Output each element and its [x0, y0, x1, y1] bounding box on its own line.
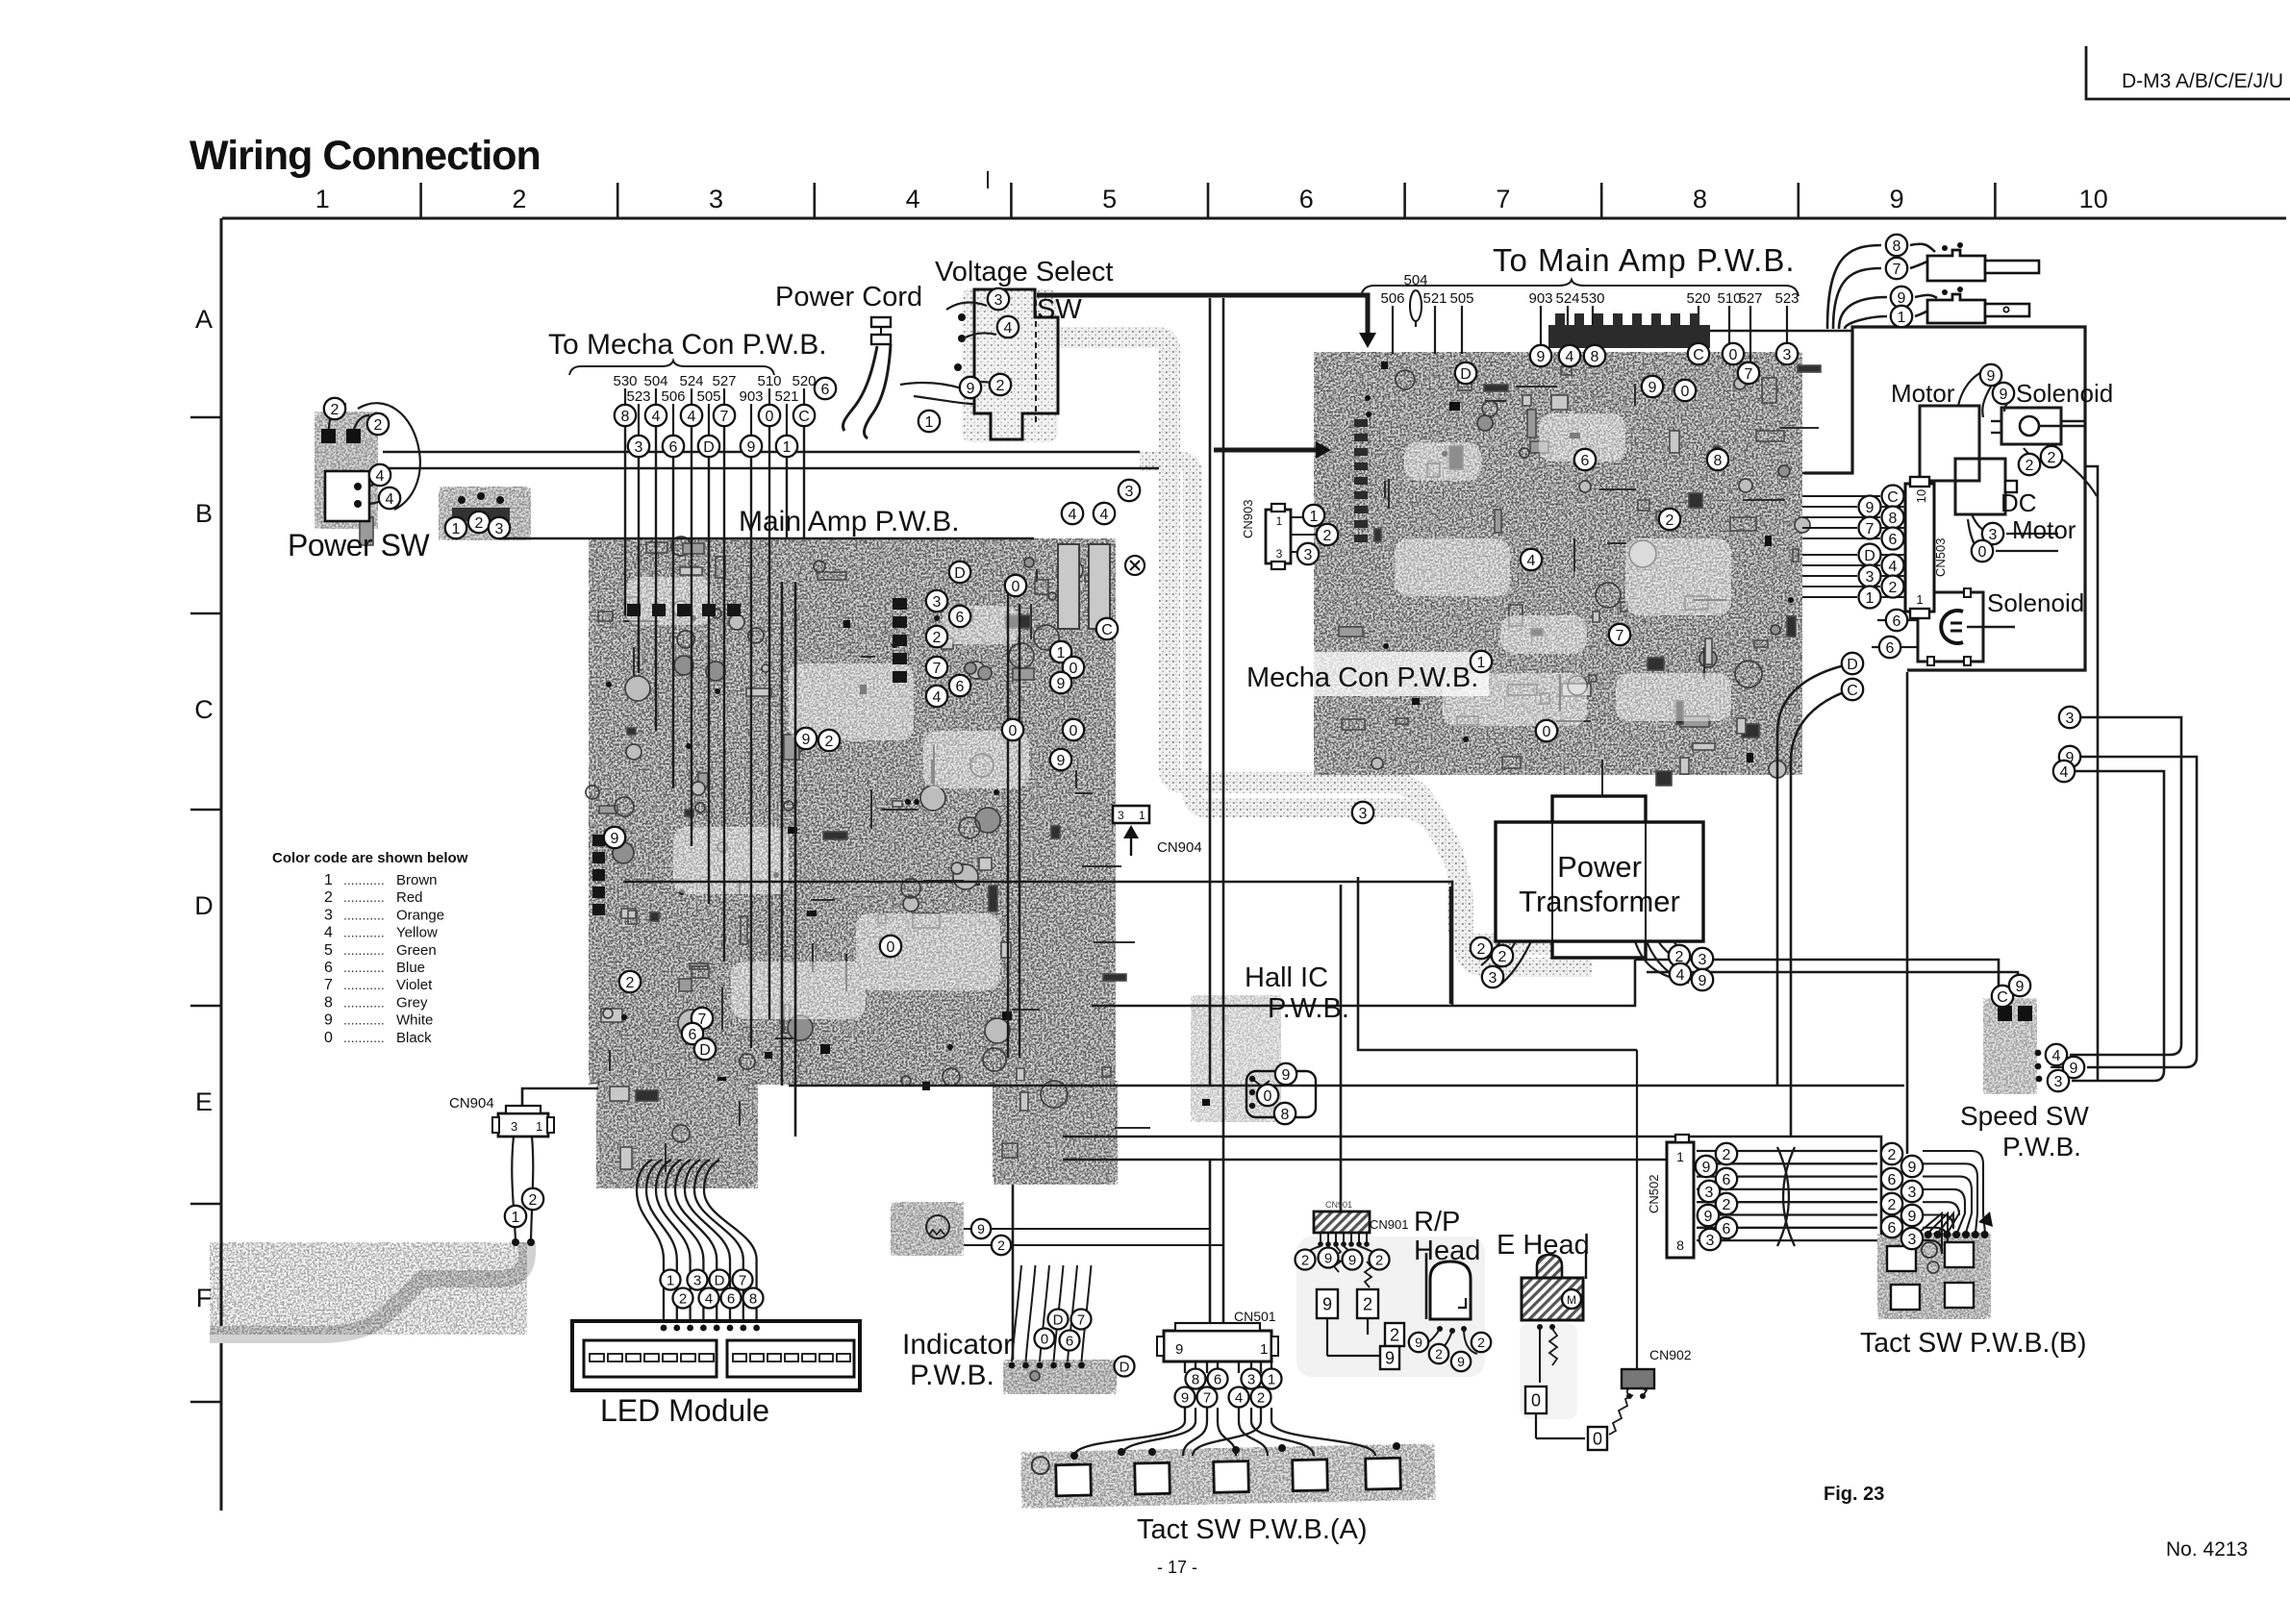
LED module pin dots	[661, 1325, 760, 1332]
svg-text:P.W.B.: P.W.B.	[2002, 1132, 2081, 1162]
svg-text:4: 4	[688, 409, 696, 425]
svg-text:1: 1	[452, 521, 461, 537]
circled markers Indicator	[1035, 1310, 1135, 1377]
svg-text:To Mecha Con P.W.B.: To Mecha Con P.W.B.	[548, 329, 827, 361]
svg-text:1: 1	[324, 872, 333, 888]
svg-text:6: 6	[1214, 1371, 1221, 1387]
svg-text:3: 3	[709, 185, 723, 213]
svg-text:CN503: CN503	[1933, 538, 1948, 577]
svg-text:3: 3	[1783, 347, 1792, 363]
svg-text:8: 8	[749, 1290, 757, 1307]
svg-text:1: 1	[1139, 809, 1145, 822]
arrowhead CN904 right	[1123, 825, 1139, 838]
svg-text:4: 4	[2052, 1048, 2061, 1064]
svg-text:Power Cord: Power Cord	[775, 282, 922, 312]
svg-text:2: 2	[324, 889, 333, 906]
board white patches	[625, 413, 1731, 1019]
svg-text:7: 7	[1077, 1312, 1085, 1328]
svg-text:6: 6	[324, 960, 333, 976]
squiggle to CN902	[1609, 1395, 1633, 1435]
svg-text:Black: Black	[396, 1030, 432, 1046]
svg-text:A: A	[195, 305, 213, 334]
wire group CN501 to Tact A	[1074, 1408, 1375, 1456]
svg-text:Wiring Connection: Wiring Connection	[189, 133, 541, 179]
svg-text:Head: Head	[1414, 1236, 1480, 1266]
svg-text:2: 2	[1888, 1197, 1897, 1213]
Indicator feed wires	[1012, 1265, 1092, 1362]
svg-text:9: 9	[1702, 1160, 1711, 1176]
svg-text:4: 4	[1889, 559, 1898, 575]
svg-text:C: C	[1997, 989, 2008, 1006]
wire right box bundle down 9	[2081, 757, 2197, 1067]
small trim board circles	[926, 1215, 949, 1238]
svg-text:No. 4213: No. 4213	[2166, 1538, 2248, 1561]
label Mecha Con P.W.B.	[1239, 652, 1489, 696]
svg-text:2: 2	[1363, 1294, 1372, 1313]
svg-text:2: 2	[1323, 528, 1332, 544]
svg-text:2: 2	[475, 515, 484, 532]
trim board wires right	[964, 1228, 1210, 1230]
svg-text:1: 1	[512, 1210, 520, 1226]
svg-text:Motor: Motor	[1891, 379, 1955, 408]
wire labels To Mecha Con group	[613, 373, 816, 405]
wire speed SW feed upper	[1635, 960, 1999, 1002]
circled markers LED module	[661, 1270, 764, 1309]
grid row letters	[194, 305, 214, 1312]
svg-text:8: 8	[1714, 453, 1723, 469]
svg-text:7: 7	[1745, 366, 1753, 383]
svg-text:9: 9	[1324, 1250, 1332, 1266]
wire nested L left of transformer inner	[1449, 887, 1452, 1004]
Mecha Con left comb	[1354, 419, 1368, 542]
Tact SW B switches	[1887, 1242, 1974, 1310]
svg-text:D: D	[1053, 1312, 1064, 1328]
svg-text:6: 6	[1886, 640, 1895, 657]
svg-text:...........: ...........	[343, 925, 385, 940]
small trim board below Main Amp	[891, 1202, 964, 1256]
svg-text:521: 521	[774, 388, 798, 405]
svg-text:Power SW: Power SW	[288, 528, 430, 562]
circled markers flex cable	[505, 1188, 543, 1227]
svg-text:Motor: Motor	[2012, 515, 2076, 544]
E head boxed 0	[1525, 1387, 1547, 1413]
svg-text:0: 0	[887, 939, 895, 956]
svg-text:8: 8	[1676, 1237, 1684, 1253]
svg-text:2: 2	[331, 402, 340, 418]
svg-text:9: 9	[1898, 290, 1906, 307]
wire group CN502 to Tact B drops	[1919, 1151, 1985, 1254]
svg-text:E Head: E Head	[1497, 1230, 1590, 1261]
svg-text:530: 530	[613, 373, 637, 389]
connector CN904 left	[492, 1106, 554, 1137]
svg-text:SW: SW	[1037, 294, 1082, 325]
connector CN901	[1314, 1212, 1370, 1233]
svg-text:1: 1	[1477, 655, 1486, 671]
svg-text:3: 3	[1699, 952, 1707, 968]
svg-text:8: 8	[1893, 238, 1901, 255]
wire plug connect 8	[1910, 244, 1935, 252]
svg-text:D: D	[1120, 1359, 1130, 1375]
E head symbol	[1522, 1250, 1586, 1320]
Main Amp left pads	[592, 835, 605, 915]
svg-text:P.W.B.: P.W.B.	[1268, 993, 1349, 1024]
Speed SW board	[1983, 998, 2037, 1094]
svg-text:D: D	[1847, 657, 1858, 673]
svg-text:...........: ...........	[343, 994, 385, 1010]
svg-text:9: 9	[1908, 1209, 1917, 1225]
R/P head bottom pins	[1416, 1326, 1477, 1354]
svg-text:506: 506	[1380, 290, 1404, 307]
svg-text:M: M	[1567, 1293, 1576, 1307]
svg-text:3: 3	[1908, 1232, 1917, 1248]
upper Solenoid symbol	[1991, 408, 2085, 444]
svg-text:9: 9	[1699, 973, 1707, 989]
svg-text:Grey: Grey	[396, 994, 428, 1011]
Tact SW B board	[1877, 1233, 1991, 1319]
R/P head boxed leads	[1317, 1289, 1338, 1318]
Hall IC board trace	[1191, 995, 1281, 1122]
svg-text:8: 8	[1591, 349, 1599, 365]
svg-text:8: 8	[621, 409, 630, 425]
circled markers on Main Amp board	[604, 562, 1118, 1060]
svg-text:1: 1	[667, 1272, 674, 1288]
svg-text:...........: ...........	[343, 907, 385, 922]
arrowhead into Tact B	[1978, 1212, 1993, 1227]
wire right box bundle down 3	[2070, 717, 2181, 1055]
svg-text:9: 9	[1537, 349, 1546, 365]
wire top feed to enclosure box	[1616, 330, 1852, 333]
svg-text:Color code are shown below: Color code are shown below	[272, 850, 468, 866]
svg-text:D: D	[699, 1042, 711, 1059]
svg-text:9: 9	[1322, 1294, 1332, 1313]
svg-text:3: 3	[1866, 569, 1875, 586]
wire long horizontal row D2	[1063, 1137, 1881, 1235]
svg-text:3: 3	[324, 907, 333, 923]
svg-text:2: 2	[2026, 458, 2034, 474]
svg-text:3: 3	[1359, 806, 1368, 822]
svg-text:Main Amp P.W.B.: Main Amp P.W.B.	[739, 506, 960, 537]
grid row ticks	[190, 417, 221, 1402]
wire D drop from box	[1777, 663, 1852, 1086]
svg-text:9: 9	[1282, 1067, 1291, 1084]
svg-text:9: 9	[611, 831, 619, 847]
svg-text:523: 523	[626, 388, 650, 405]
motor top wire	[1958, 371, 1983, 406]
svg-text:P.W.B.: P.W.B.	[910, 1360, 994, 1391]
wire arrow feed into Mecha Con left	[1214, 448, 1318, 453]
wire CN904-left pin1	[512, 1137, 516, 1240]
Indicator P.W.B. board	[1003, 1360, 1117, 1394]
Mecha Con top comb connector	[1548, 313, 1710, 348]
wire plug connect 7	[1910, 256, 1943, 268]
svg-text:2: 2	[1375, 1252, 1383, 1268]
wire group LED module feed	[637, 1190, 757, 1325]
svg-text:9: 9	[1908, 1160, 1917, 1176]
Power SW component detail	[321, 429, 369, 521]
PCB Main Amp lower-left lobe	[596, 1081, 758, 1188]
svg-text:2: 2	[512, 185, 526, 213]
svg-text:0: 0	[766, 409, 774, 425]
CN903 wires	[1291, 516, 1302, 518]
svg-text:4: 4	[324, 925, 333, 941]
svg-text:Brown: Brown	[396, 872, 438, 888]
svg-text:CN502: CN502	[1647, 1175, 1661, 1213]
svg-text:D: D	[715, 1272, 725, 1288]
arrowhead into Mecha Con top	[1359, 333, 1376, 348]
svg-text:1: 1	[1916, 592, 1923, 607]
svg-text:523: 523	[1774, 290, 1799, 307]
svg-text:7: 7	[933, 661, 942, 677]
svg-text:504: 504	[1403, 272, 1427, 288]
svg-text:3: 3	[994, 292, 1003, 309]
lower Solenoid symbol	[1918, 588, 2015, 665]
connector CN904 right	[1113, 806, 1149, 823]
svg-text:Yellow: Yellow	[396, 925, 438, 941]
svg-text:Solenoid: Solenoid	[2016, 379, 2113, 408]
svg-text:3: 3	[511, 1119, 517, 1134]
svg-text:Violet: Violet	[396, 977, 433, 993]
svg-text:1: 1	[925, 414, 934, 431]
Power SW board	[315, 412, 378, 545]
transformer right leads	[1658, 941, 1679, 960]
svg-text:...........: ...........	[343, 1030, 385, 1045]
svg-text:505: 505	[1449, 290, 1473, 307]
svg-text:3: 3	[2054, 1074, 2063, 1090]
wire group CN501 top pins	[1185, 1362, 1271, 1373]
lower solenoid wires	[1908, 619, 1918, 621]
power cord cable	[843, 346, 877, 431]
svg-text:D-M3 A/B/C/E/J/U: D-M3 A/B/C/E/J/U	[2122, 70, 2283, 92]
svg-text:Solenoid: Solenoid	[1987, 588, 2084, 617]
grid ruler top line	[222, 217, 2286, 220]
svg-text:4: 4	[2060, 764, 2069, 781]
svg-text:2: 2	[529, 1192, 538, 1209]
E head boxed 0 second	[1588, 1427, 1607, 1450]
wire nested L left of transformer outer	[1358, 877, 1637, 1050]
grid column numbers	[315, 185, 2108, 213]
svg-text:3: 3	[1125, 484, 1134, 500]
svg-text:6: 6	[1581, 453, 1590, 469]
wire long horizontal to CN502	[1063, 1159, 1667, 1162]
flex cable bottom left	[210, 1242, 527, 1335]
Main Amp center pads	[627, 598, 907, 683]
svg-text:...........: ...........	[343, 889, 385, 905]
svg-text:3: 3	[1489, 970, 1497, 987]
Tact SW B top pin dots	[1915, 1231, 1989, 1238]
wire long horizontal row C	[623, 882, 1452, 1005]
arrowhead CN904-left	[515, 1108, 530, 1121]
circled markers transformer left	[1471, 937, 1513, 987]
svg-text:1: 1	[1676, 1149, 1684, 1164]
svg-text:6: 6	[1888, 1172, 1897, 1188]
svg-text:E: E	[195, 1087, 213, 1116]
svg-text:1: 1	[1310, 509, 1319, 525]
circled wire markers To Mecha Con group	[615, 405, 815, 457]
circled markers transformer right	[1669, 945, 1713, 990]
model label D-M3 A/B/C/E/J/U	[2122, 70, 2283, 92]
svg-text:LED Module: LED Module	[600, 1393, 769, 1428]
ribbon twist lens	[1777, 1147, 1789, 1246]
svg-text:F: F	[196, 1284, 213, 1312]
svg-text:0: 0	[324, 1030, 333, 1046]
svg-text:Hall IC: Hall IC	[1245, 962, 1328, 993]
svg-text:2: 2	[1257, 1389, 1265, 1406]
wire thick feed to Mecha Con top	[1037, 295, 1368, 335]
circled markers Main Amp top	[1062, 480, 1140, 524]
LED Module box	[572, 1321, 860, 1390]
svg-text:...........: ...........	[343, 872, 385, 887]
svg-text:9: 9	[1181, 1389, 1189, 1406]
svg-text:6: 6	[689, 1027, 697, 1043]
svg-text:3: 3	[1247, 1371, 1255, 1387]
svg-text:4: 4	[376, 468, 385, 485]
svg-text:524: 524	[1555, 290, 1579, 307]
Power Transformer symbol	[1496, 796, 1703, 958]
brace To Mecha Con	[569, 361, 774, 375]
svg-text:1: 1	[783, 439, 792, 456]
Voltage Select SW outline	[954, 289, 1058, 439]
svg-text:2: 2	[1498, 949, 1507, 965]
svg-text:1: 1	[1898, 310, 1906, 326]
svg-text:4: 4	[1676, 967, 1685, 984]
svg-text:DC: DC	[2001, 488, 2037, 517]
R/P head wires fan	[1305, 1246, 1378, 1287]
wire vertical to CN901	[1340, 885, 1343, 1212]
svg-text:3: 3	[495, 521, 504, 537]
plug connector lower	[1927, 287, 2029, 323]
svg-text:0: 0	[1729, 347, 1738, 363]
svg-text:7: 7	[1616, 628, 1624, 644]
E head lead wires	[1537, 1324, 1557, 1383]
svg-text:504: 504	[643, 373, 667, 389]
svg-text:Fig. 23: Fig. 23	[1824, 1484, 1884, 1505]
svg-text:Voltage Select: Voltage Select	[935, 257, 1113, 287]
svg-text:6: 6	[956, 679, 965, 695]
svg-text:2: 2	[1723, 1197, 1731, 1213]
wire group To Mecha Con P.W.B. leads	[625, 388, 804, 1048]
svg-text:D: D	[1460, 366, 1472, 383]
svg-text:9: 9	[1385, 1348, 1395, 1367]
wire plug connect 1	[1915, 302, 1945, 316]
svg-text:C: C	[798, 409, 810, 425]
wire right box bundle down 4	[2072, 771, 2164, 1081]
PCB Main Amp P.W.B. board	[586, 537, 1135, 1090]
svg-text:Indicator: Indicator	[902, 1329, 1013, 1361]
svg-text:4: 4	[652, 409, 661, 425]
svg-text:0: 0	[1681, 384, 1690, 400]
svg-text:2: 2	[1301, 1252, 1309, 1268]
svg-text:1: 1	[1057, 645, 1066, 662]
grid left border line	[220, 218, 223, 1511]
svg-text:2: 2	[1889, 580, 1898, 596]
svg-text:9: 9	[1987, 368, 1996, 385]
Tact SW A board	[1020, 1444, 1435, 1509]
svg-text:7: 7	[324, 977, 333, 993]
svg-text:3: 3	[1705, 1185, 1714, 1201]
svg-text:520: 520	[792, 373, 816, 389]
svg-text:CN903: CN903	[1241, 500, 1255, 538]
svg-text:7: 7	[1866, 521, 1875, 537]
svg-text:...........: ...........	[343, 960, 385, 975]
svg-text:4: 4	[1069, 507, 1077, 523]
Hall IC detail	[1246, 1071, 1316, 1117]
svg-text:2: 2	[1390, 1325, 1399, 1344]
svg-text:0: 0	[1593, 1429, 1602, 1448]
svg-text:D: D	[954, 565, 966, 582]
PCB Main Amp lower-right lobe	[993, 1081, 1150, 1185]
R/P head side circles	[1409, 1333, 1428, 1352]
svg-text:7: 7	[1496, 185, 1510, 213]
svg-text:1: 1	[1268, 1371, 1275, 1387]
upper solenoid wires	[1982, 387, 1991, 417]
svg-text:7: 7	[1893, 262, 1901, 278]
svg-text:C: C	[1887, 489, 1899, 506]
svg-text:6: 6	[1066, 1333, 1073, 1349]
connector CN902	[1622, 1369, 1654, 1399]
svg-text:3: 3	[1908, 1185, 1917, 1201]
stippled cable band from Voltage Select SW to Power Transformer	[1037, 337, 1597, 944]
circled markers CN502 left	[1696, 1143, 1737, 1250]
circled markers relay board	[445, 512, 510, 538]
wire inner vertical b	[1019, 604, 1020, 1058]
svg-text:To Main Amp P.W.B.: To Main Amp P.W.B.	[1493, 242, 1796, 278]
wire vertical bus B	[1222, 298, 1225, 1160]
svg-text:6: 6	[1299, 185, 1314, 213]
gray capacitor bars on Main Amp top right	[1058, 544, 1110, 629]
svg-text:3: 3	[1276, 547, 1283, 561]
svg-text:C: C	[194, 695, 214, 724]
wire Power SW to right bus lower	[383, 467, 1159, 470]
wire CN501 riser b	[1222, 1160, 1225, 1331]
svg-text:0: 0	[1978, 544, 1987, 561]
brace To Main Amp	[1361, 280, 1799, 296]
svg-text:3: 3	[933, 594, 942, 611]
svg-text:3: 3	[1989, 527, 1998, 543]
svg-text:505: 505	[696, 388, 720, 405]
svg-text:4: 4	[933, 689, 942, 706]
wire group head cluster small	[1321, 1233, 1367, 1242]
svg-text:524: 524	[679, 373, 703, 389]
svg-text:C: C	[1693, 347, 1704, 363]
svg-text:- 17 -: - 17 -	[1157, 1558, 1197, 1577]
connector CN501	[1157, 1323, 1278, 1362]
svg-text:2: 2	[679, 1290, 687, 1307]
svg-text:1: 1	[1260, 1341, 1268, 1358]
svg-text:9: 9	[1057, 753, 1066, 769]
svg-text:7: 7	[1203, 1389, 1211, 1406]
svg-text:527: 527	[1738, 290, 1762, 307]
svg-text:Orange: Orange	[396, 907, 444, 923]
svg-text:D: D	[1864, 548, 1875, 564]
svg-text:5: 5	[324, 942, 333, 959]
wire plug connect 9	[1915, 295, 1937, 298]
transformer left leads	[1481, 941, 1500, 965]
connector CN903	[1266, 504, 1291, 569]
svg-text:1: 1	[1866, 590, 1875, 607]
wire group LED feed top curls	[637, 1160, 719, 1190]
svg-text:3: 3	[1118, 809, 1124, 822]
svg-text:B: B	[195, 499, 213, 528]
svg-text:8: 8	[1889, 511, 1898, 527]
svg-text:Blue: Blue	[396, 960, 425, 976]
svg-text:2: 2	[1888, 1147, 1897, 1163]
model label bracket	[2086, 46, 2290, 99]
svg-text:6: 6	[1893, 613, 1901, 630]
svg-text:D: D	[194, 891, 214, 920]
svg-text:Transformer: Transformer	[1519, 885, 1680, 918]
svg-text:4: 4	[906, 185, 920, 213]
wire vertical pair to LED/CN501 b	[794, 582, 797, 1137]
